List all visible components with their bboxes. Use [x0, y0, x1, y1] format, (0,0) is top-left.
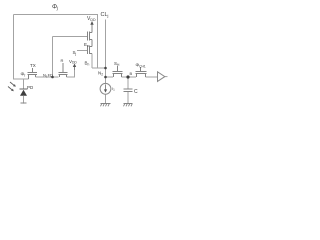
- transistor CH switch: [136, 67, 147, 77]
- wire hold node to CH switch and amp: [146, 76, 158, 78]
- node column sample junction dot: [104, 76, 107, 79]
- svg-text:I1: I1: [112, 86, 115, 92]
- wire current source stem: [105, 94, 107, 103]
- wire FD horizontal: [36, 76, 59, 78]
- wire sample to hold node: [122, 76, 137, 78]
- svg-text:SH: SH: [114, 61, 120, 67]
- svg-text:VDD: VDD: [87, 16, 96, 22]
- capacitor C: [124, 89, 133, 92]
- op-amp output buffer: [158, 72, 165, 82]
- svg-text:Φj: Φj: [52, 5, 59, 11]
- svg-text:Sj: Sj: [73, 50, 77, 56]
- wire right drop from rail: [97, 15, 99, 69]
- svg-text:N2: N2: [98, 71, 103, 77]
- node hold cap junction dot: [126, 75, 129, 78]
- wire column line CLj: [105, 20, 107, 85]
- wire select source to column: [92, 54, 105, 69]
- wire PD branch: [23, 79, 25, 89]
- wire cap branch: [127, 77, 129, 104]
- wire column to sample switch: [106, 76, 114, 78]
- wire SF gate line: [53, 36, 88, 38]
- node column top junction dot: [104, 67, 107, 70]
- wire left rail: [14, 15, 29, 80]
- svg-text:Bn: Bn: [85, 61, 90, 67]
- transistor TX: [28, 68, 38, 79]
- svg-text:B: B: [130, 71, 133, 76]
- wire amp output: [165, 76, 168, 78]
- svg-text:R: R: [61, 58, 64, 63]
- VDD arrow at reset: [73, 64, 76, 71]
- ground under capacitor: [124, 104, 133, 107]
- transistor row select: [88, 46, 93, 55]
- transistor sample switch SH: [113, 66, 123, 77]
- ground under current source: [101, 104, 111, 107]
- wire FD to SF gate vertical: [52, 37, 54, 78]
- svg-text:PD: PD: [27, 85, 34, 90]
- svg-text:CLj: CLj: [101, 12, 109, 18]
- svg-text:TX: TX: [30, 63, 36, 68]
- svg-text:ΦCH1: ΦCH1: [136, 63, 146, 69]
- wire reset to VDD arrow: [67, 66, 75, 78]
- svg-text:C: C: [134, 89, 138, 95]
- svg-text:N1FD: N1FD: [43, 73, 53, 79]
- current source I1: [100, 83, 111, 94]
- light arrows into photodiode: [8, 82, 16, 91]
- VDD arrow at SF drain: [90, 21, 93, 25]
- node FD junction dot: [51, 76, 54, 79]
- svg-text:En: En: [84, 42, 89, 48]
- wire select gate feed: [77, 50, 88, 52]
- transistor SF source follower: [88, 23, 93, 47]
- wire top rail: [14, 14, 99, 16]
- photodiode PD: [20, 89, 28, 104]
- svg-text:VDD: VDD: [69, 59, 77, 65]
- transistor reset: [59, 63, 68, 77]
